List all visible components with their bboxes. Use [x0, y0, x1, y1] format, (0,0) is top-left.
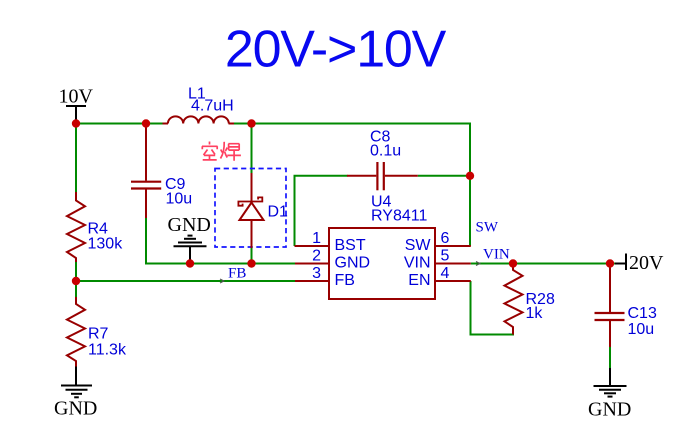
svg-text:VIN: VIN — [404, 255, 431, 272]
junction D1/GND row — [247, 259, 255, 267]
capacitor C13 — [595, 264, 657, 348]
svg-text:10u: 10u — [166, 191, 193, 208]
svg-text:10u: 10u — [628, 321, 655, 338]
pin 4 EN — [408, 265, 471, 289]
junction C8/SW — [466, 172, 474, 180]
svg-text:6: 6 — [441, 230, 450, 247]
svg-text:SW: SW — [405, 237, 432, 254]
wire FB row — [76, 262, 295, 297]
wire anchor mark VIN — [476, 262, 480, 266]
svg-text:SW: SW — [476, 220, 499, 236]
wire EN loop to R28 bottom — [471, 281, 514, 335]
svg-text:1k: 1k — [526, 305, 544, 322]
svg-text:11.3k: 11.3k — [88, 342, 127, 359]
pin 5 VIN — [404, 248, 471, 272]
wire BST loop (C8 row left + vertical to pin1) — [295, 176, 348, 246]
pin 6 SW — [405, 230, 471, 254]
svg-text:GND: GND — [168, 214, 211, 236]
svg-text:C13: C13 — [628, 305, 657, 322]
junction VIN/R28 — [509, 259, 517, 267]
svg-text:0.1u: 0.1u — [370, 143, 401, 160]
svg-text:FB: FB — [335, 272, 355, 289]
resistor R7 — [67, 297, 127, 367]
svg-text:R7: R7 — [88, 326, 109, 343]
svg-text:1: 1 — [312, 230, 321, 247]
capacitor C8 — [347, 129, 418, 191]
svg-text:4.7uH: 4.7uH — [191, 98, 234, 115]
capacitor C9 — [131, 128, 192, 219]
svg-text:2: 2 — [312, 248, 321, 265]
ground symbol (bottom left) — [61, 367, 92, 398]
wire left vertical (10V to R4) — [75, 124, 77, 193]
resistor R28 — [505, 266, 555, 335]
port 10V — [59, 86, 94, 122]
ground symbol (bottom right) — [594, 368, 627, 397]
svg-text:GND: GND — [54, 398, 97, 420]
wire top rail left — [76, 123, 164, 125]
junction R4/R7/FB — [72, 277, 80, 285]
wire top rail right with drop to SW pin — [234, 124, 470, 247]
junction C9/L1 — [142, 119, 150, 127]
svg-text:EN: EN — [408, 272, 430, 289]
resistor R4 — [67, 192, 123, 262]
dashed box around D1 — [215, 169, 286, 248]
ground symbol (middle) — [174, 236, 207, 264]
svg-text:5: 5 — [441, 248, 450, 265]
svg-text:10V: 10V — [59, 86, 94, 108]
svg-text:20V: 20V — [629, 252, 664, 274]
wire C9 top stub — [145, 124, 147, 131]
junction L1/D1 — [247, 119, 255, 127]
svg-text:FB: FB — [228, 266, 246, 282]
svg-text:BST: BST — [335, 237, 366, 254]
wire VIN row — [471, 263, 616, 265]
svg-text:VIN: VIN — [483, 247, 510, 263]
pin 2 GND — [295, 248, 370, 272]
pin 1 BST — [295, 230, 366, 254]
wire C8 right — [418, 175, 470, 177]
pin 3 FB — [295, 265, 355, 289]
diode D1 (schottky) — [238, 173, 288, 248]
svg-text:4: 4 — [441, 265, 450, 282]
wire C9 bottom + GND row to pin2 — [146, 218, 295, 264]
svg-text:3: 3 — [312, 265, 321, 282]
junction 10V/R4 — [72, 119, 80, 127]
IC U4 RY8411 — [329, 194, 435, 300]
junction VIN/C13 — [606, 259, 614, 267]
svg-text:20V->10V: 20V->10V — [225, 21, 447, 79]
svg-text:RY8411: RY8411 — [371, 208, 427, 225]
wire C13 lower green — [609, 347, 611, 368]
svg-text:130k: 130k — [88, 236, 124, 253]
wire D1 bottom stub — [251, 248, 253, 264]
inductor L1 — [163, 86, 235, 124]
svg-text:GND: GND — [335, 255, 371, 272]
port 20V — [615, 252, 664, 274]
wire D1 top stub — [251, 124, 253, 174]
label konghan (red CJK) — [202, 142, 241, 161]
junction GND row — [186, 259, 194, 267]
wire anchor mark FB — [220, 279, 224, 283]
svg-text:D1: D1 — [268, 204, 289, 221]
svg-text:GND: GND — [588, 399, 631, 421]
